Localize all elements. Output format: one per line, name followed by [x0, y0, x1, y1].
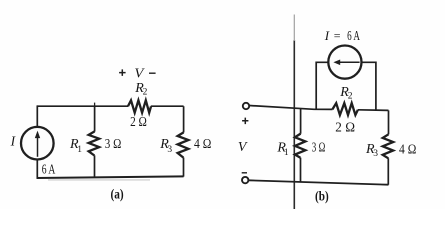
svg-text:I: I [324, 28, 330, 43]
svg-text:2 Ω: 2 Ω [335, 120, 355, 135]
svg-text:6 A: 6 A [42, 163, 56, 178]
junction tick (a) R1 top [94, 103, 96, 107]
arrow of source (a) [37, 138, 39, 157]
svg-text:3 Ω: 3 Ω [312, 141, 326, 156]
svg-text:6 A: 6 A [347, 29, 360, 44]
svg-text:=: = [334, 29, 341, 43]
wire: (b) top wire left [249, 106, 332, 110]
wire: (a) left branch upper [36, 105, 38, 127]
current source I (a) [21, 127, 54, 160]
svg-text:I: I [10, 133, 17, 148]
svg-text:2 Ω: 2 Ω [130, 115, 147, 130]
wire: (a) left branch lower [36, 159, 38, 178]
svg-text:(b): (b) [315, 189, 329, 204]
wire: (b) bottom wire [248, 180, 388, 184]
svg-text:4 Ω: 4 Ω [194, 137, 211, 152]
wire: (a) R3 branch [183, 106, 185, 176]
resistor R3 (a) [178, 132, 189, 157]
page divider line [293, 40, 295, 209]
label - (a) [149, 72, 156, 74]
resistor R2 (b) [332, 103, 358, 115]
svg-text:V: V [238, 140, 248, 155]
wire: (b) top wire right [358, 109, 389, 112]
resistor R1 (a) [89, 131, 100, 155]
resistor R3 (b) [383, 134, 394, 158]
svg-text:1: 1 [284, 148, 289, 158]
arrow of source (b) [339, 61, 360, 63]
svg-text:3: 3 [373, 149, 378, 159]
label + (a) [119, 69, 126, 76]
current source I (b) [328, 46, 361, 79]
wire: (a) R1 branch [94, 106, 96, 177]
smudge under (a) bottom wire [48, 179, 150, 181]
wire: (b) R1 branch [300, 109, 302, 182]
resistor R1 (b) [295, 134, 306, 158]
resistor R2 (a) [128, 100, 151, 112]
svg-text:3 Ω: 3 Ω [105, 137, 122, 152]
wire: (b) R3 branch [387, 110, 389, 184]
label - (b) : minus bar above lower terminal [242, 172, 247, 174]
svg-text:3: 3 [167, 145, 172, 155]
svg-text:2: 2 [348, 91, 353, 101]
terminal - (b) [242, 177, 248, 183]
wire: (a) bottom wire [37, 176, 184, 178]
wire: (b) source loop left [316, 62, 328, 109]
svg-text:(a): (a) [111, 187, 124, 202]
svg-text:4 Ω: 4 Ω [399, 143, 416, 158]
svg-text:1: 1 [77, 145, 82, 155]
svg-text:V: V [134, 67, 145, 82]
svg-text:2: 2 [143, 88, 148, 98]
terminal + (b) [243, 103, 249, 109]
label + (b) [242, 118, 248, 125]
wire: (a) top wire [37, 105, 183, 107]
wire: (b) source loop right [362, 62, 376, 110]
